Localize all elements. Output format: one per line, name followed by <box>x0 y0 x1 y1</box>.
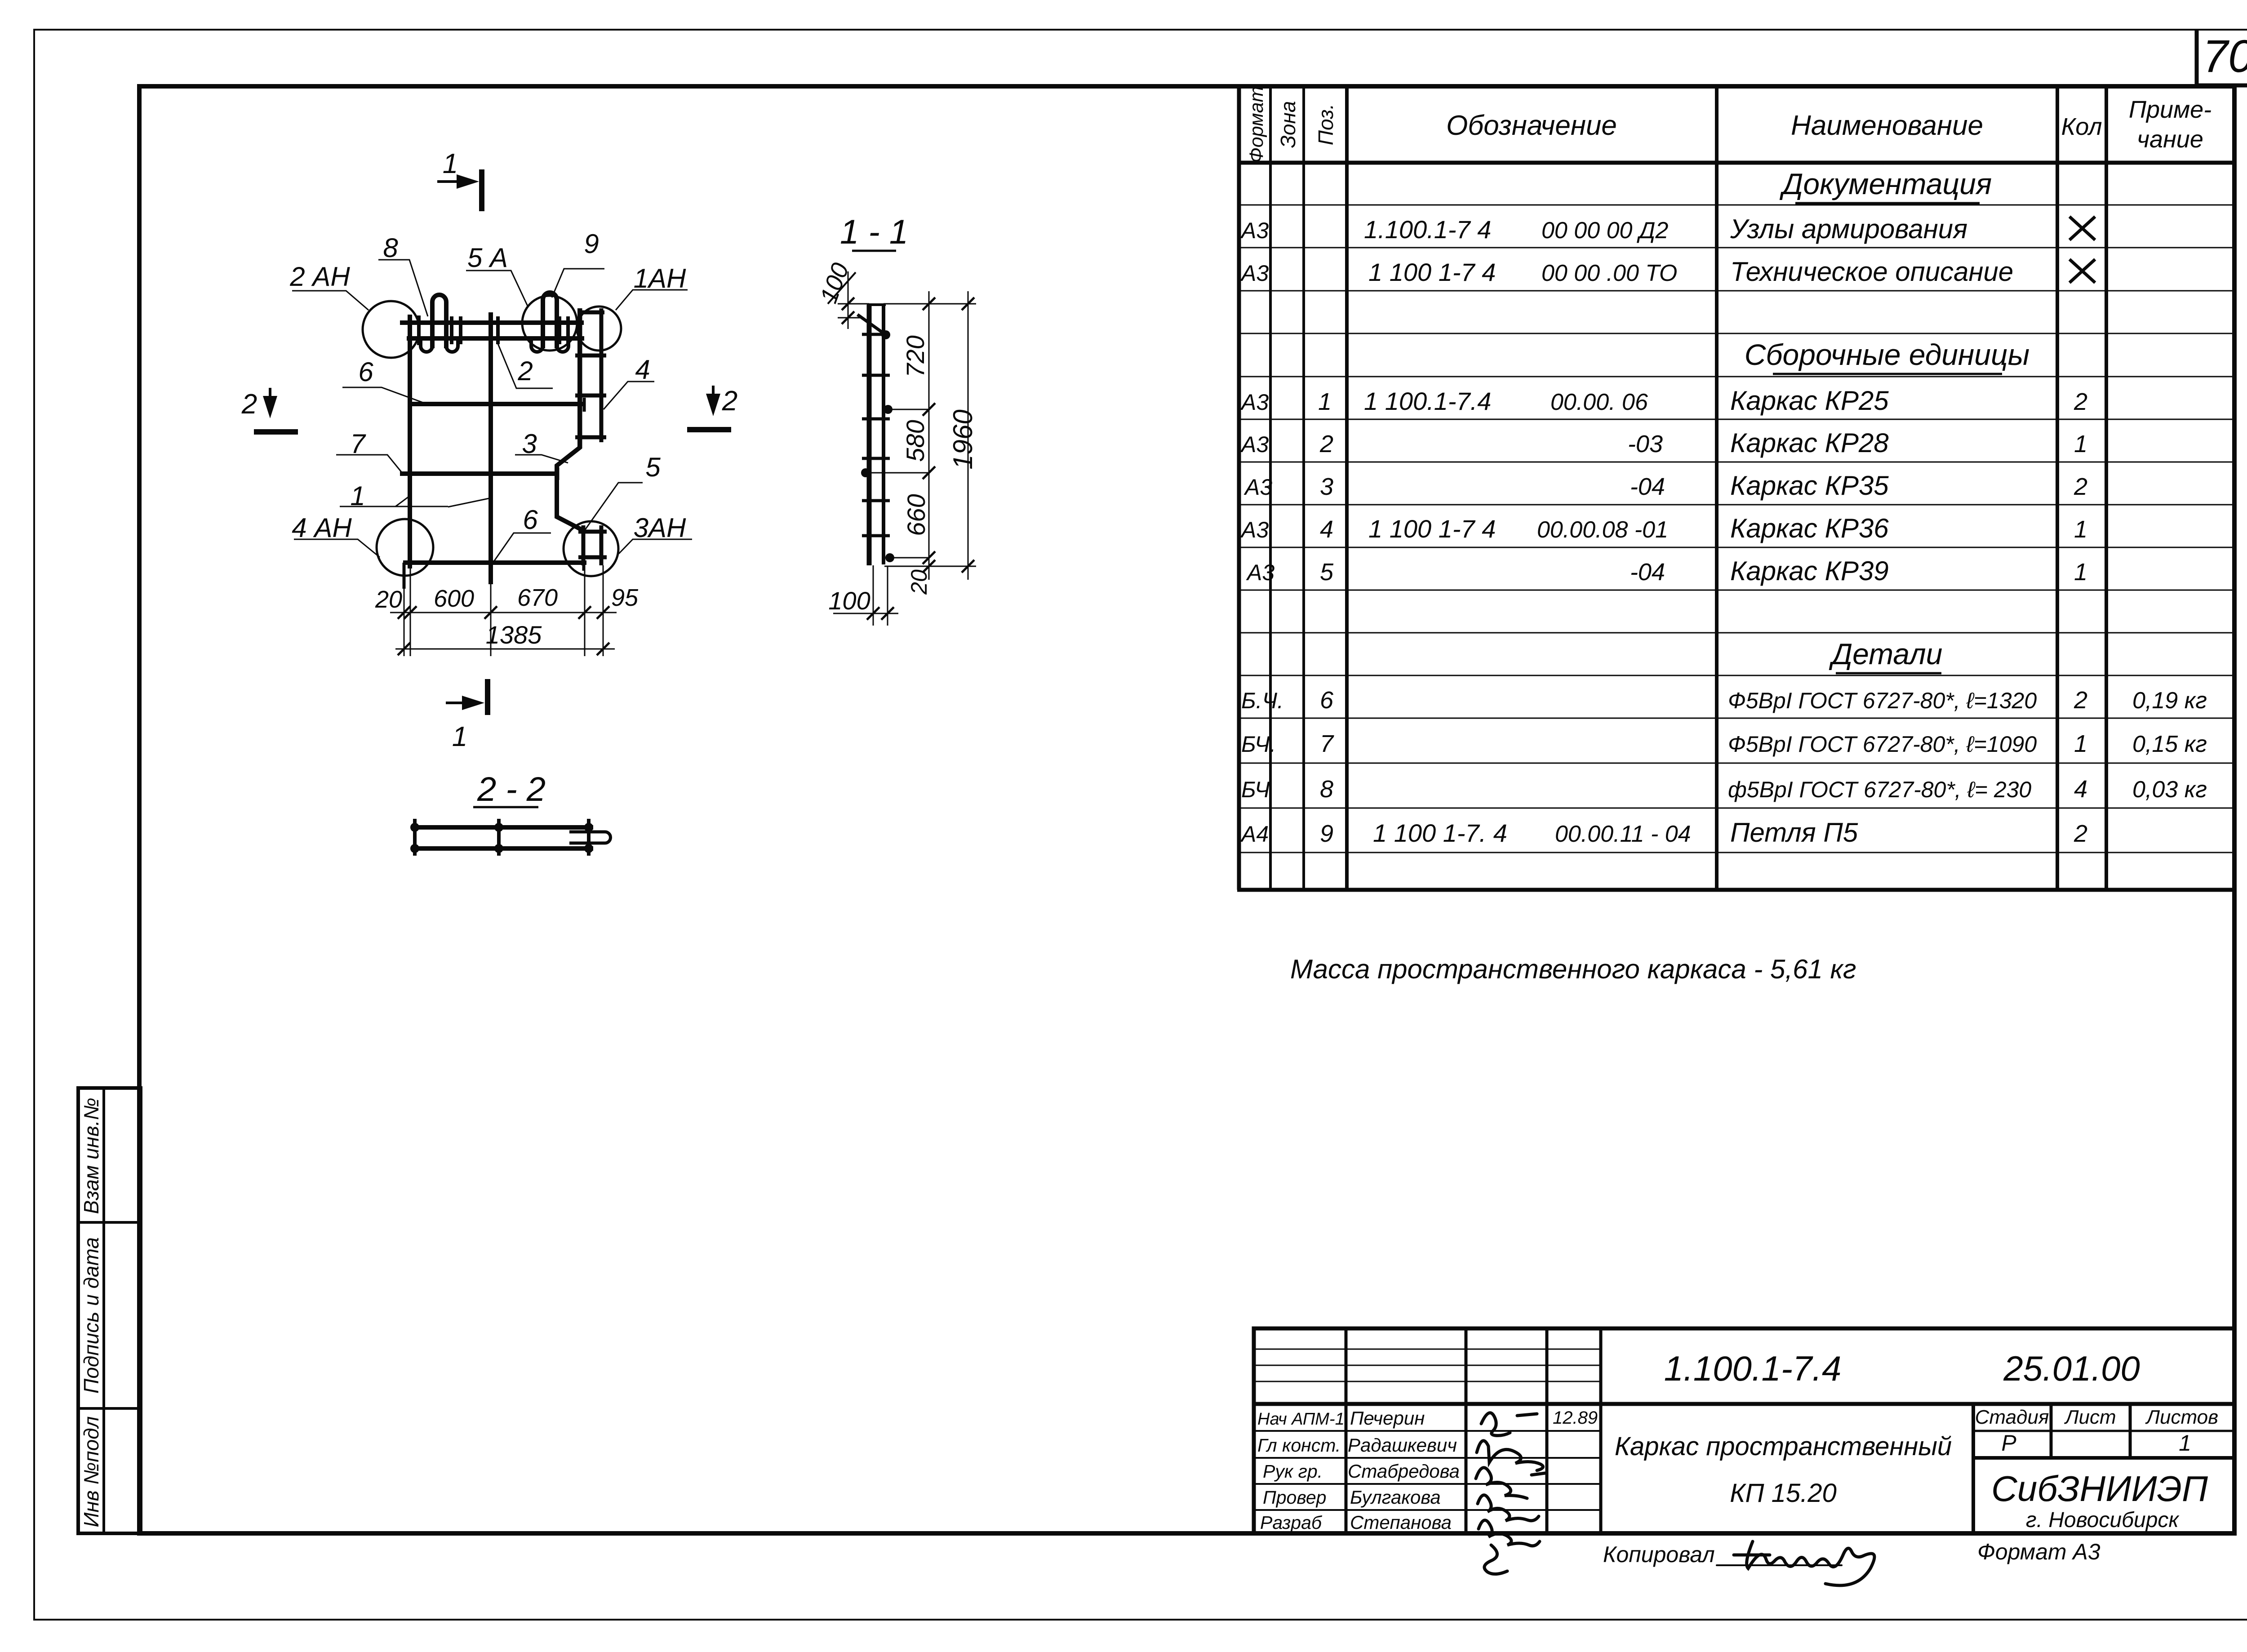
svg-text:А3: А3 <box>1240 432 1269 457</box>
thick separator under doc number cell <box>1254 1402 2234 1406</box>
bar bottom line <box>413 846 593 851</box>
svg-text:Радашкевич: Радашкевич <box>1348 1434 1457 1456</box>
section marker 1 top: arrow <box>437 180 467 183</box>
bar top cap <box>867 303 886 306</box>
loop hook seen from side <box>569 832 611 843</box>
svg-text:Ф5ВрI ГОСТ 6727-80*, ℓ=1090: Ф5ВрI ГОСТ 6727-80*, ℓ=1090 <box>1728 732 2037 757</box>
ladder rung 4 <box>575 435 606 440</box>
svg-text:20: 20 <box>375 586 402 613</box>
outer dim line 1960 <box>968 291 969 580</box>
svg-text:Техническое описание: Техническое описание <box>1730 257 2013 287</box>
top tie to dim lines <box>884 303 976 305</box>
column rule: format/zona <box>1269 86 1272 890</box>
svg-text:70: 70 <box>2203 31 2247 82</box>
svg-text:Гл конст.: Гл конст. <box>1257 1435 1341 1456</box>
svg-text:Формат А3: Формат А3 <box>1977 1539 2100 1564</box>
column rule: kol/primechanie <box>2105 86 2108 890</box>
svg-text:2: 2 <box>2074 473 2087 500</box>
vertical: sign col <box>1545 1328 1549 1533</box>
svg-text:2 - 2: 2 - 2 <box>477 770 546 808</box>
svg-text:5: 5 <box>1320 559 1334 586</box>
svg-text:Каркас КР28: Каркас КР28 <box>1730 428 1889 458</box>
PLAN VIEW <box>241 148 737 752</box>
svg-text:А3: А3 <box>1240 517 1269 542</box>
stadija values underline <box>1973 1456 2234 1460</box>
svg-text:Сборочные единицы: Сборочные единицы <box>1745 338 2030 371</box>
svg-text:1 - 1: 1 - 1 <box>840 213 908 251</box>
svg-text:ф5ВрI ГОСТ 6727-80*, ℓ= 230: ф5ВрI ГОСТ 6727-80*, ℓ= 230 <box>1728 777 2031 802</box>
section marker 1 bottom: arrow <box>446 702 473 704</box>
loop 9 left hook <box>531 340 543 352</box>
middle tick <box>497 819 501 856</box>
svg-text:9: 9 <box>584 229 599 259</box>
top chord lower bar <box>407 336 584 341</box>
svg-text:1385: 1385 <box>486 621 542 649</box>
vertical: date col <box>1599 1328 1603 1533</box>
svg-text:Узлы армирования: Узлы армирования <box>1730 214 1967 244</box>
svg-text:Б.Ч.: Б.Ч. <box>1241 688 1283 713</box>
TITLE BLOCK <box>1254 1328 2234 1585</box>
svg-text:Детали: Детали <box>1829 637 1943 671</box>
lifting loop item 9 <box>543 293 557 348</box>
mid bar 6 end tick <box>583 398 586 412</box>
LEFT SIDEBAR <box>78 1088 141 1533</box>
svg-text:00.00. 06: 00.00. 06 <box>1550 389 1648 415</box>
svg-text:Взам инв.№: Взам инв.№ <box>80 1098 103 1214</box>
column rule: naimenovanie/kol <box>2056 86 2059 890</box>
inner dim line <box>928 291 930 580</box>
svg-text:Приме-: Приме- <box>2129 96 2211 123</box>
signature row rules <box>1254 1430 1601 1432</box>
svg-text:2: 2 <box>2074 820 2087 847</box>
svg-text:Рук гр.: Рук гр. <box>1263 1461 1323 1482</box>
tie line 660 level with dot <box>888 557 929 559</box>
svg-text:00 00 00 Д2: 00 00 00 Д2 <box>1541 218 1668 244</box>
anchor detail 5: bottom bar <box>578 555 607 560</box>
bottom chord end tick <box>582 555 586 571</box>
svg-text:Инв №подл: Инв №подл <box>80 1416 103 1527</box>
signature scribbles <box>1476 1413 1545 1574</box>
svg-text:0,19 кг: 0,19 кг <box>2132 688 2207 714</box>
svg-text:2: 2 <box>241 389 257 420</box>
svg-text:12.89: 12.89 <box>1553 1408 1598 1428</box>
left end tick <box>413 819 417 856</box>
svg-text:1.100.1-7 4: 1.100.1-7 4 <box>1364 215 1491 244</box>
bottom extension lines <box>873 565 874 626</box>
tie line 580 level with dot <box>863 472 929 474</box>
vertical: label col <box>1345 1328 1348 1533</box>
svg-text:7: 7 <box>1320 730 1334 757</box>
svg-text:3АН: 3АН <box>634 513 686 543</box>
svg-text:-03: -03 <box>1628 431 1663 457</box>
svg-text:100: 100 <box>828 586 870 615</box>
svg-text:Петля П5: Петля П5 <box>1730 817 1858 848</box>
row rules <box>1239 205 2234 853</box>
svg-text:Лист: Лист <box>2064 1406 2116 1428</box>
vertical: name col <box>1465 1328 1468 1533</box>
svg-text:4: 4 <box>2074 776 2087 803</box>
svg-text:580: 580 <box>901 420 929 462</box>
ladder rung 2 <box>575 354 606 358</box>
svg-text:2: 2 <box>2074 687 2087 714</box>
svg-text:СибЗНИИЭП: СибЗНИИЭП <box>1991 1469 2208 1509</box>
weld circle at loop 9 <box>522 296 577 351</box>
svg-text:А3: А3 <box>1240 218 1269 243</box>
svg-text:1: 1 <box>2074 516 2087 543</box>
svg-text:Печерин: Печерин <box>1350 1408 1425 1429</box>
dimension extension lines <box>404 565 603 656</box>
dimension line 20/600/670/95 <box>390 612 617 613</box>
svg-text:А3: А3 <box>1240 390 1269 415</box>
svg-text:Каркас КР39: Каркас КР39 <box>1730 556 1889 586</box>
svg-text:5: 5 <box>645 452 661 482</box>
kopiroval signature <box>1717 1541 1874 1585</box>
bar profile right line <box>882 305 885 564</box>
svg-text:Стадия: Стадия <box>1975 1406 2049 1428</box>
right ladder frame 4: right rail <box>599 308 604 442</box>
sidebar divider vzam/podpis <box>78 1221 141 1224</box>
bent bar 3 outline <box>557 308 583 530</box>
anchor detail 5: top bar <box>578 530 607 534</box>
svg-text:Каркас пространственный: Каркас пространственный <box>1615 1432 1952 1461</box>
svg-text:8: 8 <box>383 233 398 263</box>
svg-text:1.100.1-7.4: 1.100.1-7.4 <box>1664 1349 1842 1388</box>
stadija/list divider <box>2050 1404 2053 1458</box>
overall dimension line 1385 <box>395 648 615 650</box>
column rule: zona/poz <box>1302 86 1305 890</box>
svg-text:Копировал: Копировал <box>1603 1542 1715 1567</box>
column rule: oboznachenie/naimenovanie <box>1715 86 1719 890</box>
svg-text:Провер: Провер <box>1263 1487 1326 1508</box>
svg-text:00 00 .00 ТО: 00 00 .00 ТО <box>1541 260 1677 286</box>
svg-text:Документация: Документация <box>1779 167 1992 200</box>
svg-text:Листов: Листов <box>2145 1406 2218 1428</box>
svg-text:600: 600 <box>434 585 474 612</box>
svg-text:4: 4 <box>635 355 650 385</box>
svg-text:1: 1 <box>443 148 458 179</box>
svg-text:00.00.11 - 04: 00.00.11 - 04 <box>1555 821 1691 847</box>
table bottom edge <box>1237 888 2234 892</box>
svg-text:А4: А4 <box>1240 822 1269 847</box>
svg-text:2: 2 <box>517 356 533 386</box>
section marker 1 bottom: cut bar <box>485 679 490 715</box>
top small row rules <box>1254 1349 1601 1350</box>
svg-text:Р: Р <box>2001 1430 2016 1456</box>
svg-text:Зона: Зона <box>1276 101 1300 148</box>
svg-text:6: 6 <box>1320 687 1334 714</box>
svg-text:Кол: Кол <box>2061 113 2102 140</box>
svg-text:Нач АПМ-1: Нач АПМ-1 <box>1257 1410 1345 1429</box>
right part: stadija box left edge <box>1972 1404 1975 1533</box>
svg-text:1960: 1960 <box>948 409 978 469</box>
svg-text:Каркас КР35: Каркас КР35 <box>1730 471 1889 501</box>
svg-text:6: 6 <box>523 505 538 535</box>
svg-text:А3: А3 <box>1246 560 1274 585</box>
right end tick <box>587 819 591 856</box>
svg-text:1 100 1-7. 4: 1 100 1-7. 4 <box>1373 819 1507 847</box>
loop 9 right hook <box>557 340 568 352</box>
right ladder frame 4: left rail <box>578 308 582 449</box>
sidebar outer box <box>78 1088 141 1533</box>
svg-text:Ф5ВрI ГОСТ 6727-80*, ℓ=1320: Ф5ВрI ГОСТ 6727-80*, ℓ=1320 <box>1728 688 2037 713</box>
section marker 1 top: cut bar <box>479 169 484 211</box>
top 100 dim ticks <box>842 298 854 324</box>
dim slash ticks <box>398 606 609 619</box>
svg-text:1 100 1-7 4: 1 100 1-7 4 <box>1368 258 1496 286</box>
svg-text:Степанова: Степанова <box>1350 1512 1452 1533</box>
loop 8 left hook <box>421 340 432 352</box>
svg-text:4: 4 <box>1320 516 1333 543</box>
svg-text:Подпись и дата: Подпись и дата <box>80 1237 103 1394</box>
inner dim slash ticks <box>923 298 935 573</box>
title block outline <box>1254 1328 2234 1533</box>
svg-text:720: 720 <box>901 335 929 377</box>
svg-text:1: 1 <box>452 721 467 752</box>
mid bar 7 end tick <box>556 467 560 480</box>
svg-text:1АН: 1АН <box>634 263 686 293</box>
mid bar 7 <box>400 471 557 476</box>
sidebar inner vertical divider <box>102 1088 105 1533</box>
svg-text:БЧ: БЧ <box>1241 777 1270 802</box>
svg-text:Масса пространственного: Масса пространственного каркаса - 5,61 к… <box>1290 954 1856 984</box>
svg-text:Булгакова: Булгакова <box>1350 1487 1441 1508</box>
svg-text:А3: А3 <box>1240 261 1269 286</box>
list/listov divider <box>2129 1404 2132 1458</box>
sheet number box <box>2195 30 2247 85</box>
ladder rung 1 <box>578 311 604 315</box>
column rule: poz/oboznachenie <box>1345 86 1349 890</box>
svg-text:2: 2 <box>722 386 737 417</box>
sidebar divider podpis/inv <box>78 1407 141 1410</box>
svg-text:1 100 1-7 4: 1 100 1-7 4 <box>1368 515 1496 543</box>
svg-text:2: 2 <box>2074 388 2087 415</box>
table outline left edge <box>1237 86 1241 890</box>
svg-text:670: 670 <box>517 584 558 611</box>
svg-text:1: 1 <box>2074 559 2087 586</box>
longitudinal bar 2 middle <box>488 312 493 584</box>
svg-text:Наименование: Наименование <box>1791 110 1983 141</box>
weld circle 4AN <box>377 519 433 576</box>
anchor detail 5: right tick <box>599 525 604 565</box>
svg-text:Поз.: Поз. <box>1314 104 1337 146</box>
svg-text:3: 3 <box>1320 473 1333 500</box>
weld circle 1AN <box>577 306 621 351</box>
svg-text:Каркас КР25: Каркас КР25 <box>1730 386 1889 416</box>
SECTION 2-2 <box>410 770 611 856</box>
bottom 100 dim line <box>833 613 898 614</box>
svg-text:660: 660 <box>902 494 930 536</box>
svg-text:8: 8 <box>1320 776 1333 803</box>
section marker 2 right: arrow down <box>712 386 715 404</box>
lifting loop item 8 <box>432 295 446 348</box>
bottom tie to dim lines <box>884 566 976 567</box>
svg-text:00.00.08 -01: 00.00.08 -01 <box>1537 517 1668 543</box>
svg-text:КП 15.20: КП 15.20 <box>1730 1479 1836 1508</box>
svg-text:4 АН: 4 АН <box>292 513 352 543</box>
ladder rung 3 <box>575 394 606 398</box>
svg-text:г. Новосибирск: г. Новосибирск <box>2026 1508 2180 1532</box>
svg-text:0,15 кг: 0,15 кг <box>2132 731 2207 757</box>
svg-text:1 100.1-7.4: 1 100.1-7.4 <box>1364 387 1491 415</box>
bottom chord left downturn <box>403 563 406 589</box>
section marker 2 left: arrow down <box>269 388 271 407</box>
svg-text:БЧ.: БЧ. <box>1241 732 1276 757</box>
top 100 dim line <box>848 271 849 329</box>
weld dots <box>410 823 593 853</box>
top extension line <box>838 303 869 305</box>
stadija header underline <box>1973 1430 2234 1432</box>
longitudinal bar 1 left <box>408 315 412 568</box>
svg-text:1: 1 <box>2179 1430 2191 1456</box>
anchor detail 5: left tick <box>582 525 586 565</box>
SPEC TABLE GRID <box>1237 86 2234 890</box>
svg-text:20: 20 <box>906 569 932 595</box>
svg-text:95: 95 <box>611 584 639 611</box>
weld circle 3AN <box>564 521 618 576</box>
cross ticks on top chord <box>419 315 568 345</box>
top chord upper bar <box>400 320 584 325</box>
svg-text:Формат: Формат <box>1246 86 1267 163</box>
section marker 2 right: cut bar <box>687 427 731 432</box>
svg-text:-04: -04 <box>1630 473 1665 500</box>
svg-text:1: 1 <box>1318 388 1332 415</box>
loop 8 right hook <box>446 340 458 352</box>
bottom chord bar 6 <box>403 560 586 565</box>
svg-text:5 А: 5 А <box>467 243 508 273</box>
SECTION 1-1 <box>815 213 978 626</box>
svg-text:А3: А3 <box>1243 475 1272 500</box>
svg-text:9: 9 <box>1320 820 1333 847</box>
svg-text:-04: -04 <box>1630 559 1665 586</box>
svg-text:Обозначение: Обозначение <box>1446 110 1617 141</box>
rungs of bar profile <box>862 334 890 536</box>
bar profile left line <box>867 305 872 565</box>
svg-text:6: 6 <box>358 357 373 387</box>
svg-text:25.01.00: 25.01.00 <box>2003 1349 2140 1388</box>
mid bar 6 upper <box>408 402 586 406</box>
svg-text:Стабредова: Стабредова <box>1348 1461 1460 1482</box>
weld circle 2AN <box>363 301 419 358</box>
svg-text:1: 1 <box>2074 730 2087 757</box>
section marker 2 left: cut bar <box>254 429 298 435</box>
svg-text:2 АН: 2 АН <box>289 262 350 292</box>
TABLE TEXT <box>1240 86 2211 848</box>
svg-text:Каркас КР36: Каркас КР36 <box>1730 513 1889 543</box>
hook diagonal with weld dot <box>857 315 886 335</box>
tie line 720 level with dot <box>887 409 929 410</box>
svg-text:чание: чание <box>2137 126 2203 153</box>
top 100 dim tie at hook level <box>838 317 863 319</box>
svg-text:Разраб: Разраб <box>1260 1512 1323 1533</box>
svg-text:0,03 кг: 0,03 кг <box>2132 777 2207 803</box>
table header bottom rule <box>1237 161 2234 165</box>
svg-text:1: 1 <box>2074 431 2087 457</box>
bar top line <box>413 825 593 830</box>
MASS NOTE <box>1290 954 1856 984</box>
svg-text:2: 2 <box>1319 431 1333 457</box>
